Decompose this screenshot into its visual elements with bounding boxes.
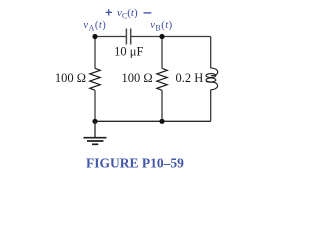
wire middle branch upper bbox=[161, 37, 163, 69]
wire top-left: vA node to capacitor left plate bbox=[95, 36, 126, 38]
node bottom-left dot bbox=[92, 119, 97, 124]
ground stem bbox=[94, 121, 96, 137]
capacitor C 10uF left plate bbox=[125, 29, 127, 45]
node bottom-middle dot bbox=[159, 119, 164, 124]
svg-text:vB(t): vB(t) bbox=[150, 20, 172, 32]
svg-text:FIGURE P10–59: FIGURE P10–59 bbox=[86, 156, 184, 171]
wire right branch lower bbox=[210, 90, 212, 122]
wire right branch upper bbox=[210, 37, 212, 69]
wire left branch upper bbox=[94, 37, 96, 69]
wire bottom bbox=[95, 120, 211, 122]
ground bar 1 bbox=[84, 137, 107, 139]
svg-text:10 μF: 10 μF bbox=[114, 44, 143, 58]
svg-text:vC(t): vC(t) bbox=[117, 7, 138, 20]
svg-text:100 Ω: 100 Ω bbox=[122, 71, 153, 85]
node vB dot bbox=[159, 34, 164, 39]
resistor R2 100ohm zigzag bbox=[157, 68, 167, 90]
inductor L 0.2H coil loop 2 bbox=[206, 78, 216, 82]
resistor R1 100ohm zigzag bbox=[90, 68, 100, 90]
svg-text:vA(t): vA(t) bbox=[83, 20, 106, 32]
svg-text:100 Ω: 100 Ω bbox=[55, 71, 86, 85]
svg-text:0.2 H: 0.2 H bbox=[176, 71, 204, 85]
label + sign of vC bbox=[106, 9, 112, 15]
inductor L 0.2H coil bottom hook bbox=[206, 81, 217, 90]
ground bar 2 bbox=[87, 140, 104, 142]
ground bar 3 bbox=[92, 143, 98, 145]
wire middle branch lower bbox=[161, 90, 163, 121]
node vA dot bbox=[92, 34, 97, 39]
inductor L 0.2H coil loop 1 bbox=[206, 74, 216, 78]
wire top-right: capacitor to top-right corner bbox=[131, 36, 211, 38]
wire left branch lower bbox=[94, 90, 96, 121]
inductor L 0.2H coil top hook bbox=[211, 68, 218, 76]
label - sign of vC bbox=[144, 12, 152, 14]
capacitor C 10uF right plate bbox=[130, 29, 132, 45]
